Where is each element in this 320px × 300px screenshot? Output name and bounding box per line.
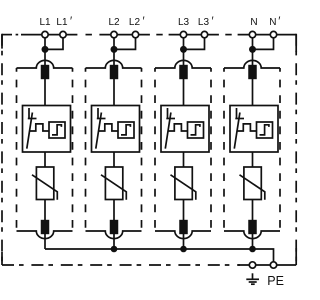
svg-text:PE: PE <box>267 274 284 288</box>
svg-text:L1′: L1′ <box>56 16 72 28</box>
svg-text:N′: N′ <box>269 16 280 28</box>
svg-text:L3′: L3′ <box>198 16 214 28</box>
svg-text:L3: L3 <box>178 17 190 28</box>
svg-text:L2: L2 <box>108 17 120 28</box>
svg-text:N: N <box>250 17 257 28</box>
svg-text:L2′: L2′ <box>129 16 145 28</box>
svg-text:L1: L1 <box>39 17 51 28</box>
